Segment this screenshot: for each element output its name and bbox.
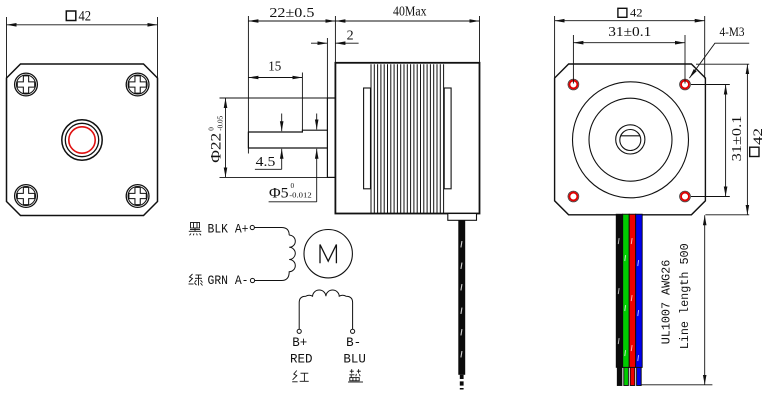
lead wire blue (636, 214, 643, 367)
lead wire highlights (618, 238, 639, 361)
label UL1007 AWG26 (660, 260, 674, 345)
svg-text:Φ5: Φ5 (269, 185, 289, 201)
svg-text:-0.05: -0.05 (216, 115, 224, 130)
rear view flange circle inner (589, 98, 672, 181)
front view: motor flange body (7, 64, 158, 216)
front view shaft boss inner ring (65, 123, 98, 156)
side view right winding bar (444, 88, 451, 189)
line length 500 dim line (704, 215, 706, 384)
side view left winding bar (364, 88, 371, 189)
dimension 4.5 leader underline (255, 168, 282, 170)
rear view hub circle (616, 125, 645, 154)
rear dimension square-42 right dim line (746, 64, 748, 215)
wire from A+ to coil A (255, 228, 290, 236)
dimension 4.5 upper arrow (281, 114, 283, 132)
dimension 2 extension line (boss face) (326, 38, 328, 98)
svg-text:22±0.5: 22±0.5 (269, 6, 314, 21)
rear view motor body (555, 64, 706, 215)
label: green GRN A- (189, 274, 203, 286)
svg-text:42: 42 (750, 128, 765, 145)
side view cable stripped tip (460, 375, 464, 390)
dimension extension line (body face) (334, 16, 336, 63)
rear dimension square-42 right extension lines (696, 63, 749, 65)
rear dimension 31 horizontal extension lines (572, 35, 574, 84)
svg-text:B-: B- (346, 336, 361, 350)
side view cable highlights (460, 241, 462, 358)
side view cable (black lead) (458, 220, 465, 374)
rear view mounting hole bottom-left (568, 191, 579, 202)
dimension square-42 front view label (66, 8, 91, 24)
dimension phi22 bottom extension line (220, 176, 336, 178)
svg-text:42: 42 (79, 8, 92, 24)
4-M3 leader (689, 43, 749, 78)
dimension phi5 lower arrow (316, 149, 318, 202)
side view wire exit box (448, 214, 477, 221)
dimension square-42 front view dim line (7, 24, 158, 26)
front view screw hole bottom-right (126, 185, 149, 208)
dimension 40Max extension line (body rear) (479, 16, 481, 63)
front view screw hole bottom-left (15, 185, 38, 208)
rear dimension square-42 right label (750, 128, 765, 157)
svg-text:Φ22: Φ22 (209, 133, 225, 163)
rear view mounting hole bottom-right (680, 191, 691, 202)
side view pilot boss (327, 98, 335, 177)
dimension 4.5 lower arrow (281, 149, 283, 170)
svg-text:31±0.1: 31±0.1 (608, 25, 651, 40)
svg-text:0: 0 (291, 182, 295, 190)
dimension phi5 leader underline (269, 201, 317, 203)
svg-text:4-M3: 4-M3 (720, 25, 745, 39)
terminal B+ (297, 329, 301, 333)
rear dimension square-42 top dim line (555, 20, 705, 22)
svg-text:Line length 500: Line length 500 (678, 243, 692, 349)
rear dimension 31 vertical dim line (725, 85, 727, 197)
side view shaft outline with flat (248, 130, 327, 148)
dimension 15 extension line (flat end) (301, 73, 303, 131)
lead wire green (623, 214, 630, 367)
rear dimension 31 vertical label (730, 116, 745, 162)
front view shaft red circle (69, 127, 95, 153)
svg-text:BLK A+: BLK A+ (208, 223, 249, 237)
svg-text:4.5: 4.5 (256, 155, 276, 170)
svg-text:40Max: 40Max (393, 5, 427, 20)
svg-text:BLU: BLU (343, 352, 366, 366)
dimension phi5 upper arrow (316, 114, 318, 130)
terminal B- (351, 329, 355, 333)
terminal A+ (250, 225, 254, 229)
dimension phi22 dim line (225, 98, 227, 177)
rear view shaft hole (620, 130, 641, 151)
motor circle M (304, 230, 352, 278)
dimension 22+-0.5 dim line (248, 20, 335, 22)
dimension square-42 front view extension lines (6, 17, 8, 79)
dimension phi5 label (269, 182, 312, 201)
lead wire red (629, 214, 636, 367)
dimension 40Max dim line (335, 20, 479, 22)
rear view mounting hole top-left (568, 79, 579, 90)
rear view flange circle outer (573, 82, 689, 198)
svg-text:GRN A-: GRN A- (208, 274, 249, 288)
label: black BLK A+ (189, 223, 202, 236)
svg-text:B+: B+ (292, 336, 307, 350)
front view screw hole top-left (15, 73, 38, 96)
rear view shaft flat chord (621, 135, 640, 137)
svg-text:31±0.1: 31±0.1 (730, 116, 745, 162)
svg-text:-0.012: -0.012 (289, 191, 312, 199)
lead wire stripped tips (617, 367, 641, 385)
dimension 22+-0.5 extension line (shaft end) (247, 16, 249, 154)
svg-text:42: 42 (630, 5, 643, 19)
dimension 15 dim line (248, 77, 302, 79)
rear view mounting hole top-right (680, 79, 691, 90)
dimension phi22 label (208, 115, 225, 162)
rear dimension 31 vertical extension lines (691, 84, 730, 86)
svg-text:UL1007 AWG26: UL1007 AWG26 (660, 260, 674, 345)
label Line length 500 (678, 243, 692, 349)
rear dimension 31 horizontal dim line (573, 42, 685, 44)
front view screw hole top-right (126, 73, 149, 96)
label lan (blue) (348, 369, 363, 382)
coil B (phase B winding) (299, 290, 352, 329)
side view lamination fins (371, 64, 444, 213)
svg-text:15: 15 (268, 60, 281, 75)
dimension 2 arrow left (311, 42, 327, 44)
svg-text:0: 0 (208, 127, 216, 131)
wire from coil A to A- (255, 280, 282, 282)
rear dimension square-42 top label (618, 5, 643, 19)
front view shaft boss outer ring (62, 120, 102, 160)
side view motor body outline (335, 63, 479, 214)
lead wire black (616, 214, 623, 367)
coil A (phase A winding) (282, 235, 296, 280)
svg-text:2: 2 (347, 29, 354, 44)
dimension 2 arrow right (335, 42, 358, 44)
rear dimension square-42 top extension lines (554, 16, 556, 79)
line length 500 bottom extension (641, 384, 712, 386)
terminal A- (250, 278, 254, 282)
label hong (red) (292, 371, 309, 382)
dimension phi22 top extension line (220, 97, 336, 99)
svg-text:RED: RED (290, 352, 313, 366)
